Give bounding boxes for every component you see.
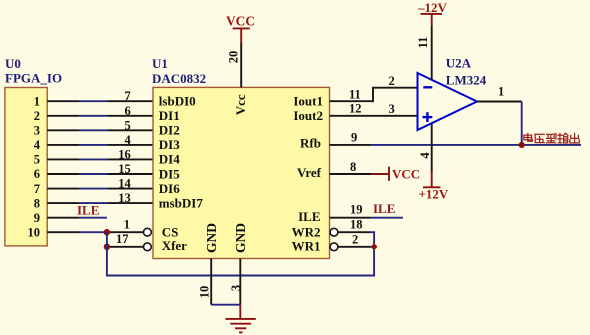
svg-text:GND: GND [233, 223, 248, 253]
svg-text:7: 7 [125, 89, 131, 103]
wire net Xfer [107, 246, 144, 248]
svg-text:7: 7 [34, 182, 40, 196]
pin name Xfer [162, 238, 187, 253]
glyph 电 [524, 134, 532, 142]
svg-text:msbDI7: msbDI7 [159, 195, 204, 210]
svg-text:LM324: LM324 [446, 73, 487, 88]
svg-text:11: 11 [349, 87, 361, 101]
wire net D1 [47, 115, 153, 117]
power label -12V [417, 0, 448, 15]
junction on Xfer [104, 244, 110, 250]
pin number 5 (U0) [34, 153, 40, 167]
wire net D2 [47, 129, 153, 131]
pin number 12 (Iout2) [349, 102, 362, 116]
svg-text:Rfb: Rfb [300, 135, 321, 150]
pin name WR1 [292, 239, 321, 254]
pin name DI5 [159, 166, 180, 181]
wire net D3 [47, 144, 153, 146]
pin number 20 rotated (Vcc) [226, 51, 240, 64]
svg-text:Iout1: Iout1 [293, 94, 323, 109]
svg-text:10: 10 [28, 225, 41, 239]
svg-text:5: 5 [34, 153, 40, 167]
pin name DI2 [159, 123, 180, 138]
svg-text:DI5: DI5 [159, 166, 180, 181]
wire Iout2 to opamp non-inverting input [330, 115, 418, 117]
designator U1 [152, 56, 168, 71]
wire opamp output [477, 101, 522, 103]
net label ILE left [77, 203, 99, 218]
svg-text:9: 9 [34, 211, 40, 225]
pin number 19 (ILE) [350, 202, 363, 216]
svg-text:DAC0832: DAC0832 [152, 71, 206, 86]
wire net ILE left [47, 217, 107, 219]
svg-text:11: 11 [416, 37, 430, 49]
svg-text:U0: U0 [5, 56, 21, 71]
svg-text:14: 14 [118, 177, 131, 191]
svg-text:DI6: DI6 [159, 181, 180, 196]
pin bubble WR2 [330, 228, 338, 236]
wire net CS [47, 231, 144, 233]
svg-text:ILE: ILE [373, 201, 395, 216]
svg-text:16: 16 [118, 147, 131, 161]
power VCC at Vref [371, 167, 389, 181]
wire net D7 [47, 202, 153, 204]
wire net D4 [47, 158, 153, 160]
svg-text:2: 2 [389, 74, 395, 88]
pin number 4 rotated (V+) [418, 152, 432, 159]
pin name WR2 [292, 225, 321, 240]
svg-text:1: 1 [498, 85, 504, 99]
svg-text:4: 4 [34, 138, 41, 152]
part name DAC0832 [152, 71, 206, 86]
glyph 型 [547, 134, 556, 143]
svg-text:WR1: WR1 [292, 239, 321, 254]
glyph 压 [535, 134, 545, 142]
pin name Rfb [300, 135, 321, 150]
power label +12V [419, 186, 449, 201]
power VCC top [233, 28, 250, 43]
svg-text:6: 6 [125, 104, 131, 118]
wire WR1 [338, 246, 374, 248]
junction WR node diamond [371, 243, 378, 250]
pin name DI1 [159, 108, 180, 123]
pin name lsbDI0 [159, 94, 196, 109]
svg-text:1: 1 [34, 94, 40, 108]
pin number 1 (opamp output) [498, 85, 504, 99]
wire net D0 [47, 100, 153, 102]
wire Rfb to output node [330, 144, 582, 146]
pin name Iout2 [293, 108, 323, 123]
wire GND link [211, 304, 240, 306]
svg-text:Iout2: Iout2 [293, 108, 323, 123]
power label VCC top [226, 13, 255, 28]
junction on CS [104, 229, 110, 235]
pin number 3 rotated (GND) [229, 285, 243, 291]
pin name DI3 [159, 137, 180, 152]
svg-text:DI2: DI2 [159, 123, 180, 138]
wire WR2 [338, 232, 374, 247]
pin number 11 rotated (V-) [416, 37, 430, 49]
svg-text:lsbDI0: lsbDI0 [159, 94, 196, 109]
wire net D5 [47, 173, 153, 175]
wire opamp to +12V [431, 124, 433, 172]
svg-text:9: 9 [351, 131, 357, 145]
ground [226, 319, 256, 333]
pin number 8 (Vref) [350, 160, 356, 174]
pin number 6 (DI1) [125, 104, 131, 118]
op-amp U2A [418, 73, 478, 130]
svg-text:8: 8 [34, 196, 40, 210]
pin name CS [162, 225, 179, 240]
svg-text:8: 8 [350, 160, 356, 174]
svg-text:4: 4 [125, 133, 132, 147]
svg-text:ILE: ILE [298, 209, 320, 224]
net label 电压型输出 (voltage output) [524, 133, 579, 143]
pin number 13 (DI7) [118, 191, 131, 205]
pin number 10 rotated (GND) [198, 286, 212, 299]
pin name GND 1 rotated [204, 223, 219, 253]
svg-text:ILE: ILE [77, 203, 99, 218]
wire output down to node [521, 102, 523, 145]
svg-text:DI3: DI3 [159, 137, 180, 152]
svg-text:15: 15 [118, 162, 131, 176]
svg-text:18: 18 [350, 218, 363, 232]
part name LM324 [446, 73, 487, 88]
junction output node [519, 142, 525, 148]
pin number 11 (Iout1) [349, 87, 361, 101]
pin bubble Xfer [144, 243, 152, 251]
pin name DI4 [159, 152, 180, 167]
pin number 18 (WR2) [350, 218, 363, 232]
svg-text:DI4: DI4 [159, 152, 180, 167]
power label VCC at Vref [392, 166, 420, 181]
wire ground rail [107, 232, 374, 275]
pin number 1 (CS) [124, 217, 130, 231]
pin name Vref [297, 165, 322, 180]
pin name ILE [298, 209, 320, 224]
pin number 9 (Rfb) [351, 131, 357, 145]
wire -12V to opamp [431, 25, 433, 80]
pin number 17 (Xfer) [116, 232, 129, 246]
svg-text:VCC: VCC [226, 13, 255, 28]
pin number 6 (U0) [34, 167, 40, 181]
pin number 10 (U0) [28, 225, 41, 239]
part U0 FPGA_IO body [5, 88, 47, 246]
svg-text:20: 20 [226, 51, 240, 64]
pin 20 wire [240, 43, 242, 88]
pin number 3 (opamp non-inverting) [389, 102, 395, 116]
svg-text:2: 2 [34, 109, 40, 123]
pin number 9 (U0) [34, 211, 40, 225]
glyph 出 [570, 133, 579, 143]
pin number 3 (U0) [34, 124, 40, 138]
svg-text:2: 2 [352, 232, 358, 246]
svg-text:1: 1 [124, 217, 130, 231]
svg-text:Xfer: Xfer [162, 238, 187, 253]
designator U0 [5, 56, 21, 71]
pin name GND 2 rotated [233, 223, 248, 253]
pin number 16 (DI4) [118, 147, 131, 161]
pin number 8 (U0) [34, 196, 40, 210]
pin number 1 (U0) [34, 94, 40, 108]
svg-text:–12V: –12V [417, 0, 448, 15]
svg-text:DI1: DI1 [159, 108, 180, 123]
svg-text:4: 4 [418, 152, 432, 159]
power +12V [423, 171, 441, 187]
pin number 4 (U0) [34, 138, 41, 152]
wire Iout1 to opamp inverting input [330, 88, 418, 102]
power -12V [421, 14, 443, 26]
pin name Vcc rotated [233, 94, 248, 115]
wire net ILE right [330, 217, 404, 219]
svg-text:Vcc: Vcc [233, 94, 248, 115]
pin name Iout1 [293, 94, 323, 109]
svg-text:19: 19 [350, 202, 363, 216]
designator U2A [446, 56, 472, 71]
pin name DI6 [159, 181, 180, 196]
pin number 5 (DI2) [125, 118, 131, 132]
svg-text:+12V: +12V [419, 186, 449, 201]
svg-text:3: 3 [34, 124, 40, 138]
svg-text:10: 10 [198, 286, 212, 299]
pin bubble WR1 [330, 243, 338, 251]
pin number 7 (DI0) [125, 89, 131, 103]
svg-text:6: 6 [34, 167, 40, 181]
svg-text:GND: GND [204, 223, 219, 253]
pin number 7 (U0) [34, 182, 40, 196]
net label ILE right [373, 201, 395, 216]
pin bubble CS [144, 228, 152, 236]
svg-text:U2A: U2A [446, 56, 472, 71]
svg-text:5: 5 [125, 118, 131, 132]
svg-text:3: 3 [389, 102, 395, 116]
svg-text:U1: U1 [152, 56, 168, 71]
pin number 4 (DI3) [125, 133, 132, 147]
wire Vref [330, 173, 373, 175]
pin name msbDI7 [159, 195, 204, 210]
wire GND pin10 [210, 259, 212, 305]
svg-text:FPGA_IO: FPGA_IO [5, 71, 62, 86]
wire GND pin3 [239, 259, 241, 305]
svg-text:VCC: VCC [392, 166, 420, 181]
pin number 2 (WR1) [352, 232, 358, 246]
glyph 输 [558, 133, 568, 143]
wire to ground symbol [239, 305, 241, 319]
svg-text:17: 17 [116, 232, 129, 246]
pin number 14 (DI6) [118, 177, 131, 191]
svg-text:12: 12 [349, 102, 362, 116]
svg-text:WR2: WR2 [292, 225, 321, 240]
wire net D6 [47, 188, 153, 190]
pin number 2 (opamp inverting) [389, 74, 395, 88]
pin number 2 (U0) [34, 109, 40, 123]
pin number 15 (DI5) [118, 162, 131, 176]
part U1 DAC0832 body [153, 87, 330, 258]
part name FPGA_IO [5, 71, 62, 86]
svg-text:Vref: Vref [297, 165, 322, 180]
svg-text:13: 13 [118, 191, 131, 205]
